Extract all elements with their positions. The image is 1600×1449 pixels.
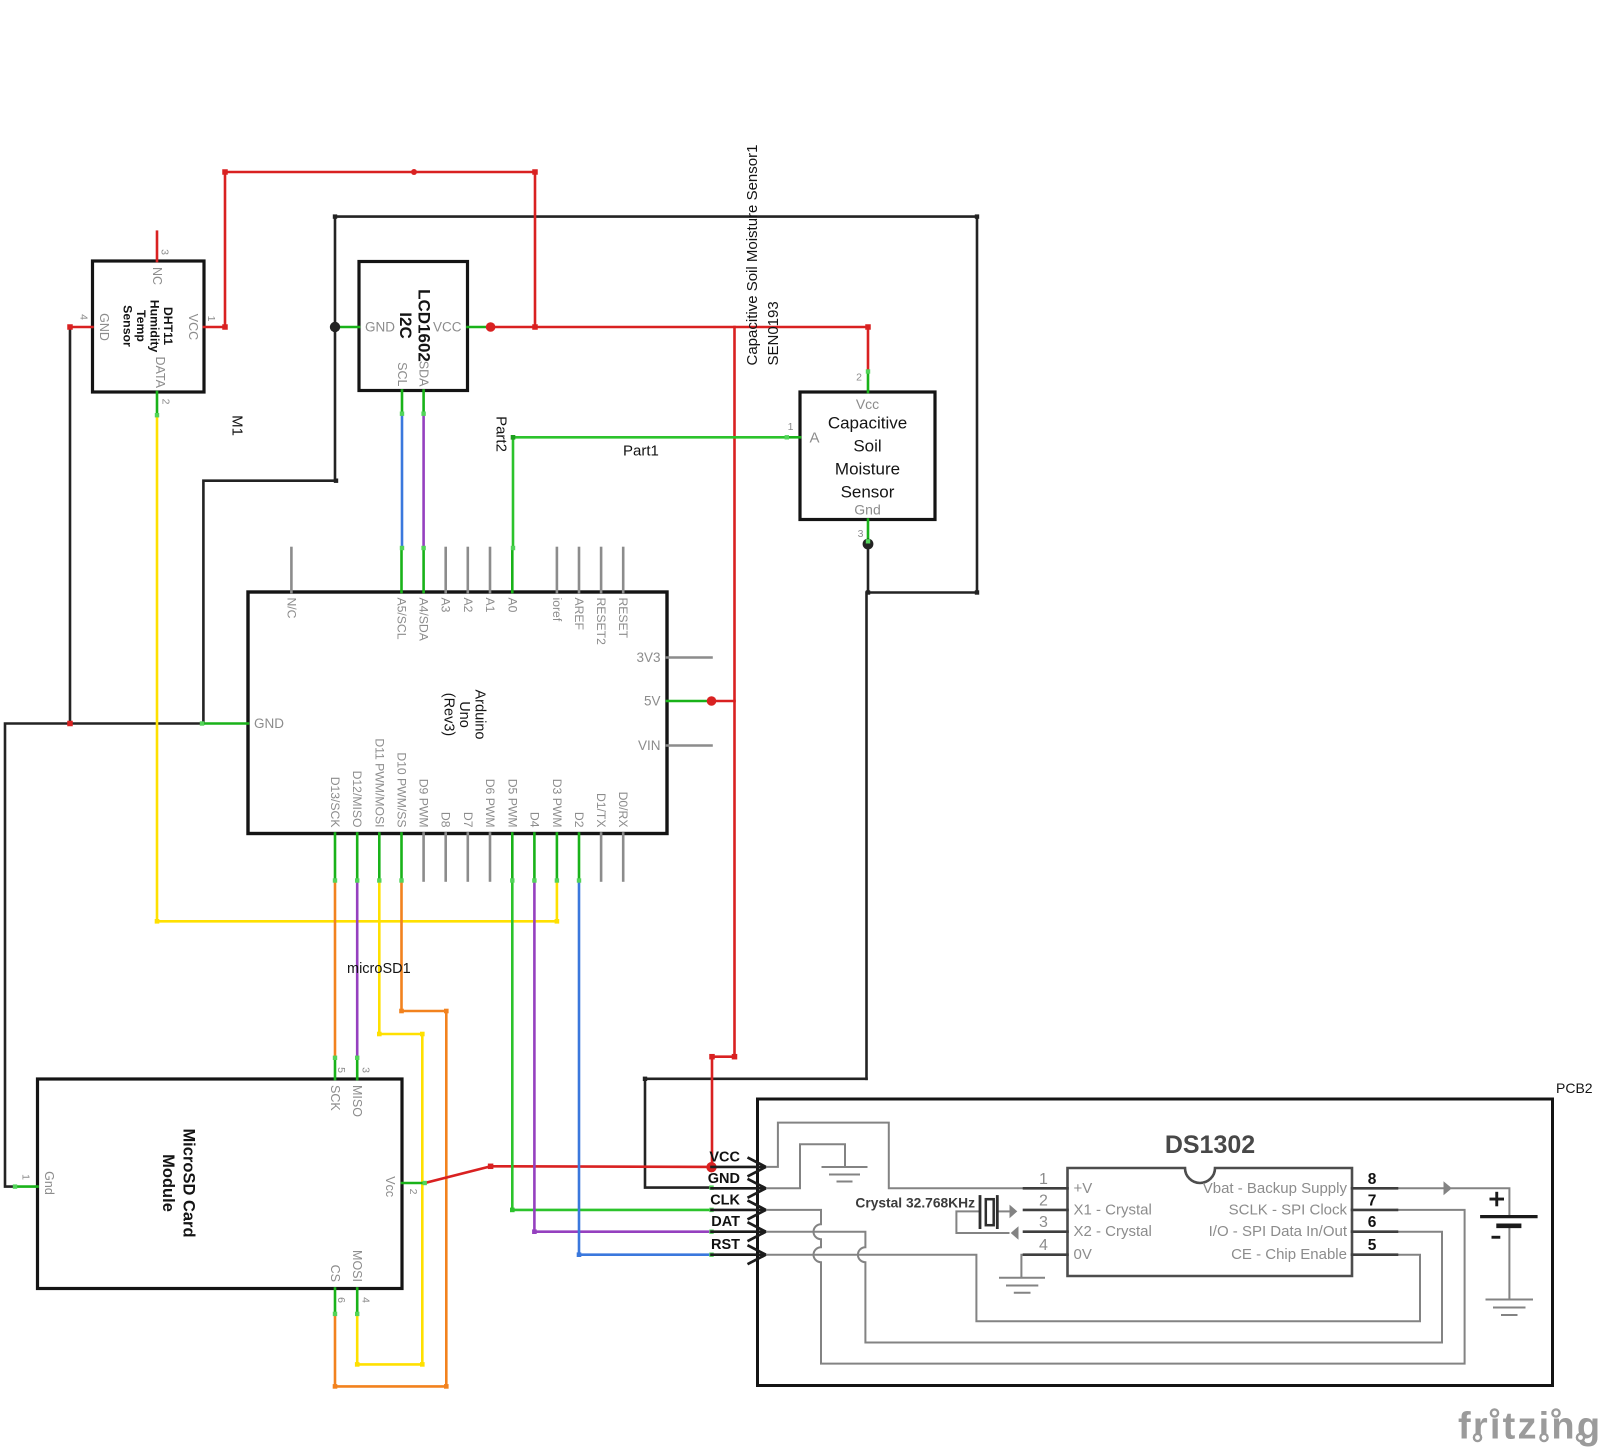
- svg-text:1: 1: [205, 316, 217, 322]
- svg-text:5: 5: [335, 1067, 347, 1073]
- svg-text:Sensor: Sensor: [841, 483, 895, 502]
- svg-text:D4: D4: [527, 812, 541, 828]
- svg-text:GND: GND: [365, 320, 395, 335]
- svg-text:I/O - SPI Data In/Out: I/O - SPI Data In/Out: [1209, 1223, 1348, 1240]
- svg-text:Part1: Part1: [623, 443, 659, 460]
- svg-text:D2: D2: [572, 812, 586, 828]
- svg-text:+V: +V: [1074, 1180, 1093, 1197]
- svg-text:Moisture: Moisture: [835, 460, 900, 479]
- svg-text:1: 1: [20, 1174, 32, 1180]
- svg-text:6: 6: [335, 1297, 347, 1303]
- svg-text:Capacitive: Capacitive: [828, 414, 907, 433]
- svg-text:D12/MISO: D12/MISO: [350, 771, 364, 828]
- svg-text:6: 6: [1368, 1214, 1377, 1231]
- svg-text:MISO: MISO: [350, 1085, 364, 1117]
- svg-text:D8: D8: [439, 812, 453, 828]
- svg-text:A3: A3: [439, 598, 453, 613]
- svg-text:N/C: N/C: [284, 598, 298, 619]
- svg-text:D9 PWM: D9 PWM: [417, 779, 431, 828]
- svg-text:DHT11HumidityTempSensor: DHT11HumidityTempSensor: [120, 300, 175, 353]
- svg-text:3: 3: [1039, 1214, 1048, 1231]
- svg-text:AREF: AREF: [572, 598, 586, 631]
- svg-text:D6 PWM: D6 PWM: [483, 779, 497, 828]
- svg-text:D13/SCK: D13/SCK: [328, 777, 342, 828]
- svg-text:DS1302: DS1302: [1165, 1131, 1255, 1159]
- svg-text:A: A: [809, 430, 819, 447]
- svg-text:X2 - Crystal: X2 - Crystal: [1074, 1223, 1152, 1240]
- svg-text:GND: GND: [708, 1171, 740, 1187]
- svg-text:D0/RX: D0/RX: [616, 792, 630, 828]
- svg-text:D10 PWM/SS: D10 PWM/SS: [395, 752, 409, 827]
- svg-text:SCK: SCK: [328, 1085, 342, 1111]
- svg-text:2: 2: [1039, 1192, 1048, 1209]
- svg-text:SDA: SDA: [417, 361, 431, 387]
- svg-text:SCL: SCL: [395, 362, 409, 386]
- svg-text:Vcc: Vcc: [856, 396, 879, 412]
- svg-text:7: 7: [1368, 1192, 1377, 1209]
- svg-text:RESET2: RESET2: [594, 598, 608, 646]
- svg-text:Gnd: Gnd: [42, 1171, 56, 1195]
- svg-text:ioref: ioref: [550, 598, 564, 622]
- svg-text:CE - Chip Enable: CE - Chip Enable: [1231, 1246, 1347, 1263]
- svg-text:Crystal 32.768KHz: Crystal 32.768KHz: [855, 1196, 975, 1211]
- svg-text:DATA: DATA: [153, 357, 167, 389]
- svg-text:CLK: CLK: [710, 1192, 740, 1208]
- svg-text:8: 8: [1368, 1171, 1377, 1188]
- svg-text:D7: D7: [461, 812, 475, 828]
- svg-text:MOSI: MOSI: [350, 1250, 364, 1282]
- svg-text:VCC: VCC: [709, 1149, 740, 1165]
- svg-text:RESET: RESET: [616, 598, 630, 639]
- svg-text:VCC: VCC: [433, 320, 462, 335]
- svg-text:Vcc: Vcc: [383, 1176, 397, 1197]
- svg-text:Part2: Part2: [492, 416, 509, 452]
- svg-text:NC: NC: [150, 267, 164, 285]
- svg-text:D11 PWM/MOSI: D11 PWM/MOSI: [372, 738, 386, 827]
- svg-text:2: 2: [407, 1189, 419, 1195]
- svg-text:3: 3: [360, 1067, 372, 1073]
- svg-text:SCLK - SPI Clock: SCLK - SPI Clock: [1229, 1201, 1348, 1218]
- svg-text:3V3: 3V3: [636, 650, 660, 665]
- svg-text:A1: A1: [483, 598, 497, 613]
- svg-text:M1: M1: [228, 415, 245, 436]
- svg-text:D1/TX: D1/TX: [594, 793, 608, 828]
- svg-text:Vbat - Backup Supply: Vbat - Backup Supply: [1203, 1180, 1348, 1197]
- svg-text:A2: A2: [461, 598, 475, 613]
- svg-text:5V: 5V: [644, 694, 661, 709]
- svg-text:3: 3: [159, 249, 171, 255]
- svg-text:microSD1: microSD1: [347, 961, 411, 977]
- svg-text:4: 4: [360, 1297, 372, 1303]
- svg-text:4: 4: [1039, 1237, 1048, 1254]
- svg-text:GND: GND: [97, 313, 111, 341]
- svg-text:D5 PWM: D5 PWM: [505, 779, 519, 828]
- svg-text:Gnd: Gnd: [854, 502, 880, 518]
- svg-text:VIN: VIN: [638, 738, 661, 753]
- svg-text:PCB2: PCB2: [1556, 1080, 1593, 1096]
- svg-text:A4/SDA: A4/SDA: [417, 598, 431, 642]
- svg-text:2: 2: [160, 399, 172, 405]
- svg-text:4: 4: [78, 314, 90, 320]
- svg-text:X1 - Crystal: X1 - Crystal: [1074, 1201, 1152, 1218]
- svg-text:RST: RST: [711, 1237, 740, 1253]
- svg-text:CS: CS: [328, 1265, 342, 1282]
- svg-text:A0: A0: [505, 598, 519, 613]
- svg-text:2: 2: [856, 372, 862, 384]
- svg-text:5: 5: [1368, 1237, 1377, 1254]
- svg-text:1: 1: [788, 421, 794, 433]
- svg-text:GND: GND: [254, 716, 284, 731]
- svg-text:3: 3: [858, 528, 864, 540]
- svg-text:Soil: Soil: [853, 437, 881, 456]
- svg-text:D3 PWM: D3 PWM: [550, 779, 564, 828]
- svg-text:VCC: VCC: [186, 314, 200, 340]
- svg-text:0V: 0V: [1074, 1246, 1092, 1263]
- svg-text:1: 1: [1039, 1171, 1048, 1188]
- svg-text:DAT: DAT: [711, 1214, 740, 1230]
- svg-text:A5/SCL: A5/SCL: [395, 598, 409, 640]
